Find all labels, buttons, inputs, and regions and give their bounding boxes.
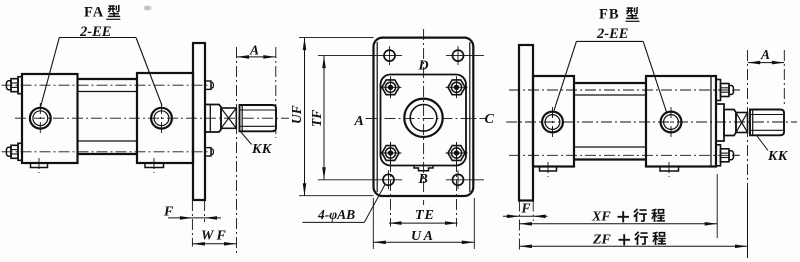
tie rod nut FB bottom	[716, 145, 721, 166]
svg-text:F: F	[521, 201, 531, 216]
dimension UA	[372, 198, 374, 249]
cylinder body front view	[381, 75, 467, 166]
label 型 (type) FB	[626, 7, 638, 19]
wrench flats FA	[221, 108, 236, 128]
tie rod nut front view top-right	[448, 80, 465, 95]
svg-text:FA: FA	[84, 5, 104, 21]
head block FB	[533, 76, 574, 167]
dimension XF + stroke	[716, 174, 718, 238]
text 行 XF	[633, 208, 647, 222]
port boss circle FA head	[30, 108, 51, 129]
main axis centerline FB	[506, 121, 797, 123]
svg-text:D: D	[418, 59, 429, 74]
main axis centerline FA	[15, 117, 289, 119]
cushion tab FB rod	[660, 167, 679, 172]
cylinder tube FB	[574, 82, 646, 84]
text 程 ZF	[652, 232, 666, 245]
dimension F FB	[518, 201, 520, 251]
leader line 2-EE FA	[59, 37, 136, 39]
mounting hole AB bottom-left	[383, 174, 394, 185]
svg-text:A: A	[249, 43, 259, 58]
dimension UF	[299, 37, 374, 39]
tie rod stub FA right bottom	[205, 148, 211, 156]
dimension ZF + stroke	[519, 245, 747, 247]
dimension A FA	[236, 47, 238, 253]
svg-text:FB: FB	[599, 7, 620, 23]
tie rod nut FB top	[716, 80, 721, 101]
rod gland plate FB	[716, 104, 724, 141]
rod gland boss FB	[724, 110, 736, 136]
svg-text:2-EE: 2-EE	[596, 26, 629, 42]
tie rod nut front view bottom-left	[382, 146, 399, 161]
leader line 2-EE FB	[576, 40, 643, 42]
threaded rod end FA (KK)	[240, 105, 277, 131]
svg-text:ZF: ZF	[592, 233, 612, 248]
svg-text:UF: UF	[289, 105, 304, 124]
dimension F FA	[191, 200, 193, 247]
cushion tab FA head	[31, 163, 48, 168]
svg-text:B: B	[418, 172, 428, 187]
port boss B front view	[414, 166, 433, 171]
svg-text:A: A	[354, 114, 364, 129]
svg-text:KK: KK	[767, 149, 789, 164]
svg-text:XF: XF	[591, 210, 611, 225]
flange plate FA	[193, 43, 205, 200]
threaded rod end FB (KK)	[750, 110, 784, 136]
horizontal centerline front view	[366, 117, 486, 119]
label 型 (type) FA	[108, 5, 120, 17]
tie rod nut front view top-left	[382, 80, 399, 95]
svg-text:C: C	[485, 112, 495, 127]
svg-text:WF: WF	[201, 229, 229, 244]
svg-text:UA: UA	[411, 229, 435, 244]
svg-text:TF: TF	[309, 110, 324, 127]
rod block FA	[137, 73, 193, 163]
cushion tab FB head	[540, 167, 557, 172]
center bore front view	[404, 99, 442, 137]
svg-text:F: F	[163, 205, 174, 220]
port boss circle FB head	[542, 112, 563, 133]
svg-text:4-φAB: 4-φAB	[317, 207, 355, 222]
tie rod stub FA right top	[205, 81, 211, 89]
bottom tie-rod centerline FA	[2, 151, 213, 153]
top tie-rod centerline FB	[509, 89, 740, 91]
port boss circle FA rod	[151, 108, 172, 129]
tie rod nut FA left top	[18, 77, 22, 94]
hole centerlines & TF extension lines	[318, 55, 402, 57]
svg-text:A: A	[760, 47, 770, 62]
dimension A FB	[747, 50, 749, 190]
head block FA	[22, 74, 78, 163]
text 行 ZF	[634, 231, 648, 245]
wrench flats FB	[736, 113, 748, 133]
dimension WF FA	[192, 243, 236, 245]
tie rod nut FA left bottom	[18, 143, 22, 160]
flange plate FB	[519, 45, 533, 201]
mounting hole AB top-right	[453, 50, 464, 61]
rod block FB	[710, 77, 712, 166]
text 程 XF	[651, 209, 665, 222]
rod gland boss FA	[209, 105, 211, 133]
vertical centerline front view	[423, 29, 425, 205]
bottom tie-rod centerline FB	[509, 154, 740, 156]
scan speck	[144, 6, 152, 11]
port boss circle FB rod	[661, 112, 682, 133]
dimension TF	[323, 56, 325, 180]
tie rod nut front view bottom-right	[448, 146, 465, 161]
svg-text:KK: KK	[251, 142, 273, 157]
top tie-rod centerline FA	[2, 84, 213, 86]
flange plate front view	[374, 38, 474, 196]
cylinder tube FA	[78, 78, 138, 80]
mounting hole AB bottom-right	[453, 174, 464, 185]
mounting hole AB top-left	[384, 50, 395, 61]
svg-text:TE: TE	[415, 208, 435, 223]
dimension TE	[390, 142, 392, 227]
cushion tab FA rod	[145, 163, 164, 168]
